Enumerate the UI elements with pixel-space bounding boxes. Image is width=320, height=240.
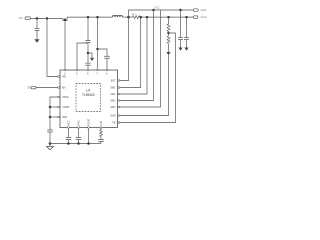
svg-text:BST: BST <box>111 80 116 83</box>
svg-text:FB: FB <box>112 122 115 125</box>
wire R4 to C10 <box>100 137 102 140</box>
pin 3 terminal circle (left SS) <box>58 96 60 98</box>
wire riser to U1 pin 1 (VIN) <box>47 18 58 76</box>
wire C9 lower lead <box>78 140 80 144</box>
IC U1 thermal pad (dashed) <box>76 84 101 112</box>
wire C8 lower lead <box>68 140 70 144</box>
svg-text:SW3: SW3 <box>110 100 116 103</box>
node junction VIN rail to U1 pin1 riser <box>46 17 49 20</box>
wire riser x168.5 to U1 right pin 6 <box>120 55 169 115</box>
capacitor C10 <box>98 140 104 142</box>
svg-text:6: 6 <box>106 72 108 75</box>
svg-text:TL59403: TL59403 <box>82 93 95 97</box>
wire C1 lower lead <box>36 31 38 39</box>
wire branch to U1 pin 4 <box>50 106 58 108</box>
wire feedback tap to U1 right pin 7 <box>120 33 176 123</box>
node junction at C1 <box>36 17 39 20</box>
capacitor C7 <box>184 38 189 40</box>
capacitor C8 <box>66 138 72 140</box>
capacitor C4 <box>104 56 110 58</box>
svg-text:COMP: COMP <box>62 106 70 109</box>
svg-text:8: 8 <box>87 72 89 75</box>
pin terminal circle (top x97.5) <box>97 69 99 71</box>
wire bottom ground rail <box>50 143 101 145</box>
wire riser x147 to U1 right pin 3 <box>120 17 147 94</box>
wire C2 upper lead <box>87 17 89 40</box>
pin terminal circle (right y100.5) <box>118 100 120 102</box>
wire U1 pin3 corner to left bus <box>50 97 58 130</box>
wire C7 upper lead <box>186 17 188 37</box>
capacitor C1 <box>35 29 40 31</box>
wire C6 upper lead <box>180 10 182 37</box>
pin terminal circle (right y115.5) <box>118 115 120 117</box>
wire C2 bottom to node <box>87 43 89 53</box>
pin terminal circle (top x107) <box>106 69 108 71</box>
wire riser x140.5 to U1 right pin 2 <box>120 17 141 87</box>
wire riser x160.5 to U1 right pin 5 <box>120 10 161 107</box>
pin terminal circle (bottom x68.5) <box>68 127 70 129</box>
pin terminal circle (top x65) <box>64 69 66 71</box>
node junction top rail at C6 <box>179 9 182 12</box>
ground (arrow) divider <box>166 52 170 55</box>
svg-text:SW4: SW4 <box>110 106 116 109</box>
resistor R3 <box>167 36 170 44</box>
capacitor C3 <box>85 63 90 65</box>
resistor R4 (bottom pin x101) <box>100 129 103 137</box>
wire C4 to U1 top pin x107 <box>106 59 108 69</box>
pin terminal circle (top x88) <box>87 69 89 71</box>
pin terminal circle (right y87.5 PH) <box>118 87 120 89</box>
pin terminal circle (bottom x101) <box>100 127 102 129</box>
wire C5 lower lead <box>49 132 51 143</box>
wire EN to U1 pin 2 <box>36 87 58 89</box>
wire branch to U1 pin 5 <box>50 116 58 118</box>
connector J2 (VOUT1 port) <box>193 9 198 12</box>
node junction gnd rail x68.5 <box>67 142 70 145</box>
node junction ground rail left end <box>49 142 52 145</box>
svg-text:VCC: VCC <box>155 7 160 9</box>
ground (arrow) mid branch <box>90 58 94 61</box>
wire rail jog at junction <box>63 17 67 21</box>
node junction rail at C2 <box>87 16 90 19</box>
wire C1 upper lead <box>36 18 38 28</box>
pin 5 terminal circle (left COMP) <box>58 116 60 118</box>
connector J1 (VIN input port) <box>25 17 30 20</box>
wire VIN rail middle segment <box>67 16 113 18</box>
pin terminal circle (right y94) <box>118 93 120 95</box>
wire riser to U1 top pin (x65) <box>64 21 66 69</box>
node junction left bus pin5 <box>49 116 52 119</box>
wire rail right segment <box>141 16 193 18</box>
svg-text:GND: GND <box>77 120 80 126</box>
wire riser x97.5 down to U1 top pin <box>97 17 99 69</box>
wire VIN rail left segment <box>30 17 63 19</box>
pin terminal circle (bottom x78.5) <box>78 127 80 129</box>
svg-text:EN: EN <box>62 87 66 90</box>
node junction switch/output node <box>127 16 130 19</box>
wire rail after L1 <box>123 16 133 18</box>
pin 4 terminal circle (left RT) <box>58 106 60 108</box>
node junction x97.5 branch <box>96 48 99 51</box>
svg-text:VIN: VIN <box>62 76 66 79</box>
wire C8 upper lead (bottom pin x68.5) <box>68 129 70 138</box>
node junction gnd rail x88.5 <box>87 142 90 145</box>
node junction rail at x140.5 <box>139 16 142 19</box>
inductor L1 <box>113 15 123 17</box>
capacitor C9 <box>76 138 82 140</box>
node junction rail at C7 <box>185 16 188 19</box>
connector J3 (VOUT2 port) <box>193 16 198 19</box>
pin terminal circle (right y122.5 FB) <box>118 122 120 124</box>
svg-text:VIN: VIN <box>19 18 23 20</box>
wire divider mid segment <box>168 32 170 37</box>
node junction rail at x97.5 <box>96 16 99 19</box>
node junction C2/C3 chain <box>87 52 90 55</box>
wire riser x128.5 down to U1 right pin 1 <box>120 17 129 80</box>
wire riser x128.5 up to top rail <box>129 10 194 17</box>
node junction left bus pin4 <box>49 106 52 109</box>
svg-text:SW1: SW1 <box>110 87 116 90</box>
svg-text:EN: EN <box>28 88 32 90</box>
pin 2 terminal circle (left EN) <box>58 87 60 89</box>
resistor R1 (inline on rail) <box>132 16 141 19</box>
ground (open triangle) main <box>47 146 54 150</box>
ground (arrow) C7 <box>184 48 188 51</box>
capacitor C2 <box>85 41 90 43</box>
wire C3 to U1 top pin x88 <box>87 66 89 69</box>
node junction rail at x147 <box>146 16 149 19</box>
ground (arrow) C6 <box>178 48 182 51</box>
wire ground stub <box>49 144 51 147</box>
pin terminal circle (top x77) <box>76 69 78 71</box>
wire from U1 top pin x77 to C2 bottom node <box>77 43 88 69</box>
wire C7 lower lead <box>186 40 188 48</box>
pin terminal circle (right y107) <box>118 106 120 108</box>
ground (arrow) for C1 <box>34 39 39 43</box>
svg-text:GND: GND <box>110 115 116 118</box>
wire riser x153.5 to U1 right pin 4 <box>120 10 154 101</box>
wire C10 lower lead to gnd rail <box>100 142 102 144</box>
svg-text:PGND: PGND <box>87 119 90 126</box>
IC U1 body <box>60 70 118 128</box>
wire branch to C4 <box>98 49 108 56</box>
capacitor C5 <box>47 130 53 132</box>
svg-text:REG: REG <box>67 121 70 126</box>
svg-text:7: 7 <box>97 72 99 75</box>
node junction rail to U1 top pin riser <box>64 19 67 22</box>
capacitor C6 <box>178 38 183 40</box>
node junction divider midpoint <box>167 32 170 35</box>
wire R3 lower lead <box>168 44 170 53</box>
wire bottom pin x88.5 to gnd rail <box>88 129 90 144</box>
svg-text:VSNS: VSNS <box>62 96 69 99</box>
svg-text:SW2: SW2 <box>110 93 116 96</box>
pin terminal circle (right y80.5 BOOT) <box>118 80 120 82</box>
node junction divider top <box>167 16 170 19</box>
node junction gnd rail x78.5 <box>77 142 80 145</box>
wire C6 lower lead <box>180 40 182 48</box>
svg-text:9: 9 <box>76 72 78 75</box>
svg-text:ILIM: ILIM <box>100 121 103 126</box>
wire branch to ground <box>88 53 92 58</box>
connector J4 (EN port) <box>31 86 36 89</box>
wire C3 upper lead <box>87 53 89 63</box>
node junction top rail at x153.5 <box>152 9 155 12</box>
svg-text:VDD: VDD <box>62 116 67 119</box>
resistor R2 <box>167 17 170 31</box>
pin 1 terminal circle (left VIN) <box>58 76 60 78</box>
svg-text:Vout2: Vout2 <box>201 16 208 19</box>
pin terminal circle (bottom x88.5) <box>88 127 90 129</box>
svg-text:Vout1: Vout1 <box>201 9 208 12</box>
wire C9 upper lead (bottom pin x78.5) <box>78 129 80 138</box>
